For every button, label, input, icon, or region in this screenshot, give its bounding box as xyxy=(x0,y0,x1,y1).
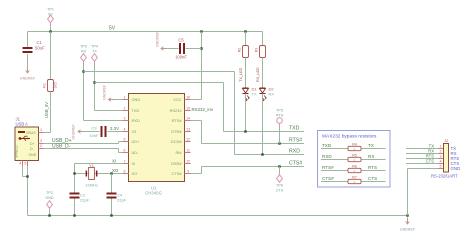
junction XO/C4 xyxy=(110,172,112,174)
svg-text:CTS: CTS xyxy=(276,189,284,193)
svg-text:14: 14 xyxy=(186,116,190,120)
svg-text:RS232: RS232 xyxy=(170,108,182,113)
node MAX232 title xyxy=(322,134,377,140)
resistor R5 xyxy=(348,153,361,162)
wire VCC branch xyxy=(191,32,202,100)
node label CTS# xyxy=(322,176,334,181)
svg-text:1: 1 xyxy=(40,128,42,132)
svg-text:RTS#: RTS# xyxy=(322,165,334,170)
capacitor C4 xyxy=(107,193,127,203)
node RXD label xyxy=(289,149,300,155)
svg-text:2: 2 xyxy=(439,150,441,154)
junction RXD/D2 xyxy=(261,153,263,155)
svg-text:11: 11 xyxy=(186,148,190,152)
junction J2 gnd xyxy=(406,214,408,216)
svg-text:TP5: TP5 xyxy=(276,109,283,113)
svg-text:VBUS: VBUS xyxy=(26,131,36,135)
wire RTS net xyxy=(191,121,305,144)
svg-text:DCD#: DCD# xyxy=(171,139,182,144)
svg-text:16: 16 xyxy=(186,95,190,99)
wire C4 bottom xyxy=(111,199,113,216)
svg-text:CTS#: CTS# xyxy=(289,161,302,167)
junction RTS/TP5 xyxy=(278,142,280,144)
ground GNDREF bottom right xyxy=(400,218,416,232)
junction TP3/RX rail xyxy=(82,70,84,72)
svg-text:D+: D+ xyxy=(30,142,35,146)
connector J2 designator xyxy=(444,138,449,143)
svg-text:3: 3 xyxy=(439,155,441,159)
svg-text:R5: R5 xyxy=(352,153,357,157)
frame MAX232 bypass resistors box xyxy=(318,131,391,188)
junction TXD/D1 xyxy=(244,130,246,132)
svg-text:RXD: RXD xyxy=(132,118,140,123)
svg-text:RXD: RXD xyxy=(322,154,332,159)
wire D2 cathode to RXD xyxy=(262,94,264,155)
svg-text:RS232_inv: RS232_inv xyxy=(192,107,214,112)
connector J1 designator xyxy=(16,117,29,127)
node USB_D- label xyxy=(52,144,71,150)
wire D1 cathode to TXD xyxy=(245,94,247,132)
svg-text:TXD: TXD xyxy=(289,126,300,132)
svg-text:5V: 5V xyxy=(109,26,116,32)
capacitor C1 xyxy=(23,40,45,53)
wire ground rail xyxy=(28,215,408,217)
node U1 pin names xyxy=(132,97,183,176)
svg-text:TP6: TP6 xyxy=(276,184,283,188)
svg-text:USB_D-: USB_D- xyxy=(52,144,71,150)
svg-text:TX: TX xyxy=(92,50,97,54)
svg-text:C3: C3 xyxy=(91,126,97,131)
testpoint TP2 xyxy=(45,191,54,216)
svg-text:DSR#: DSR# xyxy=(171,161,182,166)
junction C4/gnd xyxy=(110,214,112,216)
resistor R6 xyxy=(348,164,361,173)
svg-text:50uF: 50uF xyxy=(35,46,45,51)
resistor R1 xyxy=(43,80,58,92)
svg-text:UD-: UD- xyxy=(132,150,140,155)
svg-text:USB A: USB A xyxy=(16,122,29,127)
testpoint TP5 xyxy=(276,109,284,144)
svg-text:5: 5 xyxy=(439,165,441,169)
junction TP2/gnd xyxy=(48,214,50,216)
wire J1 ground xyxy=(23,166,28,216)
svg-text:GNDREF: GNDREF xyxy=(72,124,76,140)
wire bypass row RTS# xyxy=(321,170,386,172)
svg-text:MAX232 bypass resistors: MAX232 bypass resistors xyxy=(322,134,377,140)
testpoint TP3 xyxy=(80,45,87,65)
junction TP4/TX rail xyxy=(93,81,95,83)
junction XI/C2/crystal xyxy=(73,172,75,174)
capacitor C2 xyxy=(70,193,90,203)
wire XO net xyxy=(75,173,123,175)
node label TXD xyxy=(322,143,332,148)
wire TP3 stem xyxy=(83,64,85,121)
node U1 name xyxy=(151,186,157,191)
svg-text:1: 1 xyxy=(439,145,441,149)
node J2 pin numbers xyxy=(439,145,441,169)
wire bypass row TXD xyxy=(321,148,386,150)
node label TX xyxy=(368,143,374,148)
testpoint TP4 xyxy=(91,45,98,65)
svg-text:GND: GND xyxy=(29,153,37,157)
svg-text:22pF: 22pF xyxy=(80,198,90,203)
node 5V label xyxy=(109,26,116,32)
svg-text:1: 1 xyxy=(124,95,126,99)
svg-text:5: 5 xyxy=(124,137,126,141)
node label RX xyxy=(368,154,374,159)
wire J1 pin stubs xyxy=(23,133,44,167)
node TX_LED label xyxy=(239,58,246,88)
svg-text:22pF: 22pF xyxy=(117,198,127,203)
wire RXD pin wire xyxy=(84,120,123,122)
wire R3 top xyxy=(262,32,264,46)
wire U1 pin stubs xyxy=(123,100,191,174)
wire XI net xyxy=(75,164,123,193)
svg-text:TP2: TP2 xyxy=(46,191,53,195)
LED D2 xyxy=(260,87,275,102)
svg-text:TXD: TXD xyxy=(132,108,140,113)
svg-text:R4: R4 xyxy=(352,142,357,146)
svg-text:GND: GND xyxy=(451,166,461,171)
capacitor C5 xyxy=(175,38,187,60)
wire C5 left xyxy=(165,48,179,50)
svg-text:CTS: CTS xyxy=(426,158,435,163)
svg-text:R6: R6 xyxy=(352,164,357,168)
svg-text:3: 3 xyxy=(124,116,126,120)
svg-text:9: 9 xyxy=(187,169,189,173)
wire J2 pin stubs xyxy=(439,149,444,169)
crystal Y1 xyxy=(85,163,98,188)
ground GNDREF at U1 pin1 xyxy=(103,84,123,101)
wire VBUS to R1 xyxy=(44,132,51,134)
svg-text:CTS#: CTS# xyxy=(322,176,334,181)
node J1 pin names xyxy=(15,131,37,158)
svg-text:RX: RX xyxy=(81,50,87,54)
junction 5V/VCC xyxy=(200,30,202,32)
svg-text:J2: J2 xyxy=(444,138,449,143)
svg-text:DTR#: DTR# xyxy=(171,129,182,134)
svg-text:TP3: TP3 xyxy=(80,45,87,49)
svg-text:R2: R2 xyxy=(238,48,242,53)
svg-text:3: 3 xyxy=(40,139,42,143)
svg-text:5: 5 xyxy=(24,162,26,166)
node USB_5V label xyxy=(44,102,49,118)
svg-text:CH340G: CH340G xyxy=(145,191,163,196)
svg-text:2: 2 xyxy=(40,144,42,148)
wire TX rail xyxy=(95,83,305,132)
wire CTS net xyxy=(191,167,305,174)
wire C2 bottom xyxy=(74,199,76,216)
svg-text:4: 4 xyxy=(439,160,441,164)
svg-text:4: 4 xyxy=(124,127,126,131)
svg-text:TX: TX xyxy=(368,143,374,148)
capacitor C3 xyxy=(89,126,106,139)
svg-text:C5: C5 xyxy=(178,38,184,43)
svg-text:XI: XI xyxy=(132,161,136,166)
svg-text:4: 4 xyxy=(19,162,21,166)
node CTS# label xyxy=(289,161,302,167)
svg-text:RXD: RXD xyxy=(289,149,300,155)
wire J2 nets xyxy=(406,149,439,216)
wire TXD pin wire xyxy=(95,110,123,112)
junction CTS/TP6 xyxy=(278,165,280,167)
svg-text:R7: R7 xyxy=(352,175,357,179)
svg-text:TP4: TP4 xyxy=(91,45,98,49)
svg-text:1k5: 1k5 xyxy=(54,82,58,88)
svg-text:C1: C1 xyxy=(37,40,43,45)
junction 5V/TP1/R1 xyxy=(49,30,51,32)
svg-text:RX: RX xyxy=(269,92,275,97)
resistor R3 xyxy=(255,46,266,58)
svg-text:TXD: TXD xyxy=(322,143,332,148)
svg-text:RS-232/UART: RS-232/UART xyxy=(431,174,458,179)
svg-text:RTS#: RTS# xyxy=(289,138,302,144)
ground GNDREF left of C3 xyxy=(72,124,84,140)
node label CTS xyxy=(368,176,377,181)
svg-text:Y1: Y1 xyxy=(89,163,95,168)
resistor R7 xyxy=(348,175,361,184)
svg-text:R1: R1 xyxy=(43,83,47,88)
svg-text:15: 15 xyxy=(186,106,190,110)
node U1 value CH340G xyxy=(145,191,163,196)
wire RX rail xyxy=(84,72,305,155)
svg-text:SHIELD: SHIELD xyxy=(15,145,19,158)
svg-text:6: 6 xyxy=(124,148,126,152)
wire TP4 stem xyxy=(94,64,96,111)
svg-text:TX_LED: TX_LED xyxy=(239,67,243,82)
svg-text:12MHz: 12MHz xyxy=(85,183,98,188)
wire C1 branch xyxy=(27,32,29,67)
wire R1 top xyxy=(50,32,52,80)
svg-text:RTS: RTS xyxy=(368,165,377,170)
connector J2 body xyxy=(444,144,449,173)
node RS-232/UART label xyxy=(431,174,458,179)
node RX_LED label xyxy=(256,58,263,88)
svg-text:UD+: UD+ xyxy=(132,139,141,144)
node label RTS xyxy=(368,165,377,170)
svg-text:RTS: RTS xyxy=(276,114,284,118)
svg-text:8: 8 xyxy=(124,169,126,173)
resistor R4 xyxy=(348,142,361,151)
svg-text:GND: GND xyxy=(45,196,54,200)
svg-text:10: 10 xyxy=(186,159,190,163)
wire C4 branch xyxy=(111,174,113,193)
junction VCC/C5 xyxy=(200,47,202,49)
node U1 pin numbers xyxy=(124,95,191,173)
svg-text:100nF: 100nF xyxy=(175,55,187,60)
node RS232_inv label xyxy=(192,107,214,112)
svg-text:XO: XO xyxy=(132,171,138,176)
svg-text:13: 13 xyxy=(186,127,190,131)
svg-text:3.3V: 3.3V xyxy=(110,126,119,131)
junction J1 shield xyxy=(26,175,28,177)
ground GNDREF left of C5 xyxy=(156,31,167,50)
svg-text:CTS#: CTS# xyxy=(172,171,183,176)
wire USB_D- net xyxy=(44,149,123,153)
junction 5V/R2 xyxy=(244,30,246,32)
node J2 right labels xyxy=(451,146,461,171)
svg-text:TP1: TP1 xyxy=(47,8,54,12)
svg-text:CTS: CTS xyxy=(368,176,377,181)
wire bypass row RXD xyxy=(321,159,386,161)
svg-text:RI#: RI# xyxy=(175,150,182,155)
testpoint TP6 xyxy=(276,167,284,193)
testpoint TP1 xyxy=(47,8,54,32)
svg-text:2: 2 xyxy=(124,106,126,110)
connector J1 body xyxy=(15,127,39,161)
wire 5V rail xyxy=(28,31,263,33)
svg-text:RX_LED: RX_LED xyxy=(256,67,260,82)
svg-text:R3: R3 xyxy=(255,48,259,53)
LED D1 xyxy=(243,87,258,102)
wire V3 net xyxy=(81,131,123,133)
svg-text:GND: GND xyxy=(132,97,141,102)
node RTS# label xyxy=(289,138,302,144)
svg-text:RTS#: RTS# xyxy=(172,118,183,123)
junction C2/gnd xyxy=(73,214,75,216)
svg-text:VCC: VCC xyxy=(173,97,181,102)
node USB_D+ label xyxy=(52,138,72,144)
svg-text:V3: V3 xyxy=(132,129,137,134)
svg-text:7: 7 xyxy=(124,159,126,163)
node 3.3V label xyxy=(110,126,119,131)
svg-text:XO: XO xyxy=(112,168,119,173)
svg-text:XI: XI xyxy=(112,159,116,164)
wire USB_D+ net xyxy=(44,142,123,144)
wire R2 top xyxy=(245,32,247,46)
svg-text:USB_5V: USB_5V xyxy=(44,102,49,118)
op-amp U1 CH340G body xyxy=(129,94,185,182)
node J2 net labels xyxy=(426,143,435,163)
svg-text:12: 12 xyxy=(186,137,190,141)
resistor R2 xyxy=(238,46,249,58)
svg-text:TX: TX xyxy=(252,92,257,97)
svg-text:RX: RX xyxy=(368,154,374,159)
node J1 pin numbers xyxy=(19,128,42,166)
svg-text:GNDREF: GNDREF xyxy=(103,84,107,100)
node label RXD xyxy=(322,154,332,159)
wire USB_5V net xyxy=(44,92,51,133)
ground GNDREF under C1 xyxy=(20,67,36,81)
wire C5 right xyxy=(186,48,202,50)
svg-text:GNDREF: GNDREF xyxy=(20,77,36,81)
svg-text:GNDREF: GNDREF xyxy=(400,228,416,232)
node label RTS# xyxy=(322,165,334,170)
node TXD label xyxy=(289,126,300,132)
node XO label xyxy=(112,168,119,173)
svg-text:GNDREF: GNDREF xyxy=(156,31,160,47)
node XI label xyxy=(112,159,116,164)
svg-text:10nF: 10nF xyxy=(89,133,99,138)
wire bypass row CTS# xyxy=(321,181,386,183)
connector J1 USB symbol xyxy=(18,131,30,141)
